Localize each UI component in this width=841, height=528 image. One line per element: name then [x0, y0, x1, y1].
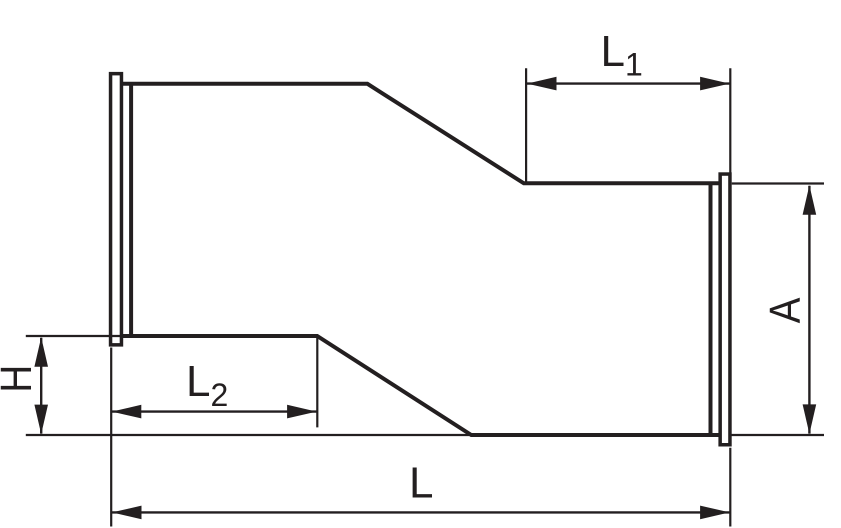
svg-text:H: H	[0, 365, 41, 393]
A dimension line	[808, 186, 810, 434]
A up arrowhead	[803, 185, 817, 215]
L right extension line	[729, 448, 731, 527]
L2 left arrowhead	[112, 405, 142, 419]
A top extension line	[732, 182, 824, 184]
body left wall	[129, 84, 133, 336]
L1 left extension line	[525, 68, 527, 181]
L1 right extension line	[729, 68, 731, 173]
left flange	[111, 74, 122, 345]
bottom baseline extension line (H and A bottom)	[26, 434, 824, 436]
L1 right arrowhead	[700, 77, 730, 91]
L2 dimension line	[112, 410, 317, 412]
L2 right extension line	[316, 337, 318, 427]
L left arrowhead	[112, 506, 142, 520]
body top edge and upper slope	[121, 84, 720, 184]
body lower-left edge, lower slope and bottom edge	[121, 336, 720, 435]
L2 right arrowhead	[287, 405, 317, 419]
H up arrowhead	[34, 337, 48, 367]
L dimension line	[112, 511, 730, 513]
L1 dimension line	[527, 82, 730, 84]
body right wall	[709, 183, 713, 435]
A down arrowhead	[803, 404, 817, 434]
L right arrowhead	[700, 506, 730, 520]
L and L2 shared left extension line	[110, 348, 112, 527]
H dimension line	[40, 338, 42, 434]
svg-text:L: L	[409, 458, 433, 507]
H down arrowhead	[34, 405, 48, 435]
svg-text:A: A	[760, 297, 810, 323]
H top extension line	[26, 335, 123, 337]
right flange	[720, 174, 730, 445]
L1 left arrowhead	[527, 77, 557, 91]
